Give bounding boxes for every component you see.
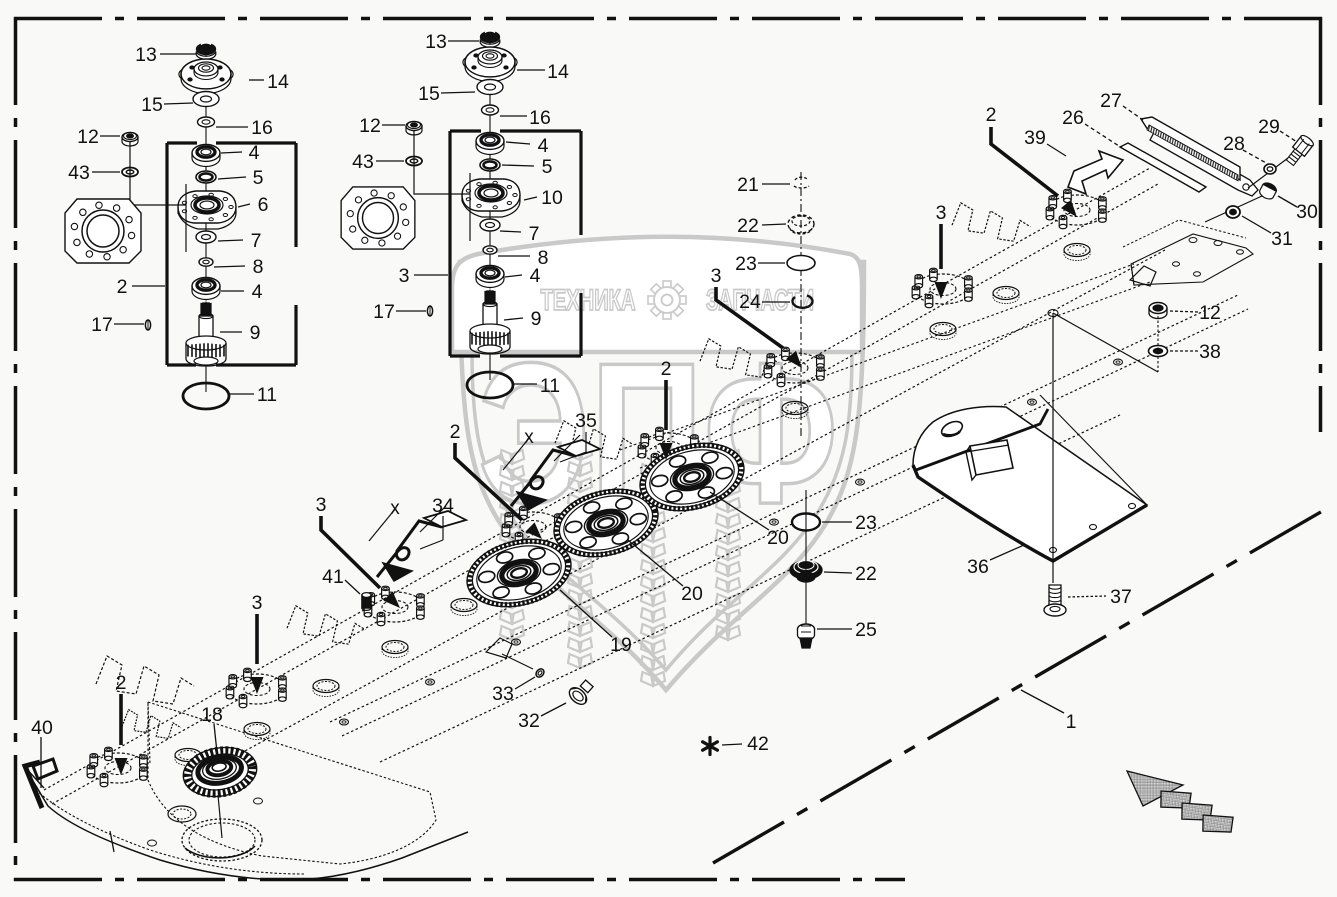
assembly group bracket frame xyxy=(167,143,296,365)
svg-text:3: 3 xyxy=(711,265,722,287)
spindle assembly axis column xyxy=(489,43,491,380)
disc bearing spindle at 118,768 xyxy=(87,747,147,787)
svg-text:31: 31 xyxy=(1271,228,1293,250)
svg-text:15: 15 xyxy=(141,94,163,116)
O-ring 11 xyxy=(183,383,229,409)
label 37 xyxy=(1068,586,1132,608)
label 20 xyxy=(710,492,789,549)
label 12 xyxy=(1170,302,1221,324)
disc bearing spindle at 533,527 xyxy=(502,506,562,546)
arrow 2 to spindle S4 xyxy=(660,380,673,460)
svg-text:34: 34 xyxy=(432,495,454,517)
label 30 xyxy=(1278,196,1318,223)
pin 17 col1 xyxy=(145,320,150,330)
knife blade 27 xyxy=(1141,117,1240,181)
label 4 xyxy=(506,135,549,157)
label 43 xyxy=(352,151,404,173)
svg-text:5: 5 xyxy=(253,167,264,189)
svg-text:29: 29 xyxy=(1258,116,1280,138)
assembly group bracket frame xyxy=(450,131,581,356)
bearing 4 lower xyxy=(476,266,504,288)
label 3 xyxy=(936,202,947,224)
snap ring 24 xyxy=(792,296,812,308)
direction arrow icon bottom right xyxy=(1127,771,1233,835)
label 13 xyxy=(135,44,196,66)
label 20 xyxy=(628,540,703,605)
label 3 xyxy=(252,592,263,614)
label 31 xyxy=(1242,216,1293,250)
svg-text:17: 17 xyxy=(91,314,113,336)
label 42 xyxy=(722,733,769,755)
label 14 xyxy=(517,61,569,83)
svg-text:7: 7 xyxy=(251,230,262,252)
svg-text:17: 17 xyxy=(373,301,395,323)
label 3 xyxy=(399,265,448,287)
ring 22 top xyxy=(788,215,814,234)
O-ring 23 bottom xyxy=(792,514,820,531)
svg-text:23: 23 xyxy=(855,512,877,534)
washer 38 xyxy=(1149,346,1168,357)
svg-text:12: 12 xyxy=(359,115,381,137)
label 2 xyxy=(450,421,461,443)
svg-text:14: 14 xyxy=(267,71,289,93)
svg-text:15: 15 xyxy=(418,83,440,105)
label 34 xyxy=(432,495,454,517)
castellated mounting profiles on bar xyxy=(96,656,194,704)
label 36 xyxy=(967,545,1024,578)
label 27 xyxy=(1100,90,1143,120)
label 12 xyxy=(77,126,120,148)
label 40 xyxy=(31,717,53,788)
svg-text:4: 4 xyxy=(530,265,541,287)
svg-text:37: 37 xyxy=(1110,586,1132,608)
svg-text:ТЕХНИКА: ТЕХНИКА xyxy=(541,284,636,317)
label 23 xyxy=(735,253,785,275)
bearing housing 10 xyxy=(462,179,520,217)
stud line 12-43 to housing xyxy=(414,131,470,194)
arrow 39 leader from label xyxy=(1047,144,1066,156)
O-ring 23 top xyxy=(787,256,815,271)
bearing housing 6 xyxy=(178,191,236,229)
svg-text:22: 22 xyxy=(737,215,759,237)
axis line 12-38 xyxy=(1157,316,1159,372)
bolt 25 xyxy=(798,624,815,648)
disc bearing spindle at 257,689 xyxy=(226,668,286,708)
svg-text:16: 16 xyxy=(251,117,273,139)
washer 28 xyxy=(1264,164,1276,174)
asterisk 42 xyxy=(703,738,718,755)
seal 22 bottom xyxy=(790,561,822,583)
stud axis line xyxy=(1248,152,1296,188)
label 6 xyxy=(238,194,268,216)
screw 29 xyxy=(1284,134,1315,168)
label 25 xyxy=(817,619,877,641)
svg-text:42: 42 xyxy=(747,733,769,755)
label 38 xyxy=(1170,341,1221,363)
pin 17 col2 xyxy=(427,306,432,316)
label 22 xyxy=(737,215,786,237)
label 29 xyxy=(1258,116,1297,142)
label 1 xyxy=(1021,690,1076,733)
label 2 xyxy=(117,276,165,298)
svg-text:13: 13 xyxy=(425,31,447,53)
label 35 xyxy=(575,410,597,432)
arrow 2 bent to spindle S7 xyxy=(991,127,1082,221)
label 7 xyxy=(500,223,539,245)
arrow 2 to spindle S0 xyxy=(115,694,128,775)
skid channel bolt heads xyxy=(340,359,1123,725)
svg-text:43: 43 xyxy=(68,162,90,184)
dimension x for 35 xyxy=(503,427,580,470)
bolt 37 xyxy=(1044,585,1066,616)
svg-text:11: 11 xyxy=(540,375,560,397)
nut 30 xyxy=(1258,178,1280,201)
svg-text:2: 2 xyxy=(986,104,997,126)
svg-text:4: 4 xyxy=(252,281,263,303)
svg-text:40: 40 xyxy=(31,717,53,739)
cutterbar main frame wire outlines xyxy=(44,168,1248,804)
watermark logo xyxy=(452,237,864,690)
arrow 2 bent to spindle S3 xyxy=(455,443,547,544)
svg-text:9: 9 xyxy=(250,322,261,344)
svg-text:9: 9 xyxy=(531,308,542,330)
label 18 xyxy=(201,704,223,762)
label 16 xyxy=(500,107,551,129)
label 2 xyxy=(116,672,127,694)
leader 18 to disc hole xyxy=(218,795,222,838)
cover plate 36 xyxy=(913,407,1147,561)
disc bearing spindle at 1077,210 xyxy=(1046,189,1106,229)
label 5 xyxy=(218,167,264,189)
label 2 xyxy=(661,358,672,380)
svg-text:12: 12 xyxy=(77,126,99,148)
svg-text:27: 27 xyxy=(1100,90,1122,112)
cut line part 1 xyxy=(713,509,1326,863)
svg-text:2: 2 xyxy=(661,358,672,380)
label 5 xyxy=(502,156,553,178)
svg-text:3: 3 xyxy=(252,592,263,614)
spring clip 34 xyxy=(377,511,466,581)
dimension x for 34 xyxy=(369,498,446,541)
svg-text:30: 30 xyxy=(1296,201,1318,223)
nut 13 xyxy=(196,43,216,59)
nut 12 xyxy=(406,122,422,136)
svg-text:24: 24 xyxy=(739,291,761,313)
disc mounting plate xyxy=(148,702,436,864)
disc bearing spindle at 669,448 xyxy=(638,427,698,467)
svg-text:19: 19 xyxy=(610,634,632,656)
label 4 xyxy=(221,142,260,164)
blade clamp wedge right xyxy=(1130,266,1156,286)
label 8 xyxy=(214,256,263,278)
ring 16 xyxy=(198,117,215,127)
gear 20 first xyxy=(547,479,665,567)
label 15 xyxy=(141,94,193,116)
O-ring 11 xyxy=(467,372,513,398)
label 17 xyxy=(91,314,144,336)
svg-text:8: 8 xyxy=(253,256,264,278)
svg-text:43: 43 xyxy=(352,151,374,173)
label 15 xyxy=(418,83,475,105)
line from bar to cover xyxy=(1052,313,1054,583)
leader 34 xyxy=(442,516,444,540)
washer 15 xyxy=(477,80,503,95)
label 17 xyxy=(373,301,426,323)
svg-text:14: 14 xyxy=(547,61,569,83)
washer 15 xyxy=(193,92,219,107)
gear 19 xyxy=(460,529,578,617)
spring clip 35 xyxy=(511,440,600,510)
svg-text:39: 39 xyxy=(1024,127,1046,149)
label 14 xyxy=(249,71,289,93)
bearing 4 upper xyxy=(476,133,504,155)
nut 13 xyxy=(480,31,500,47)
label 39 xyxy=(1024,127,1046,149)
bearing 4 lower xyxy=(192,278,220,300)
svg-text:2: 2 xyxy=(116,672,127,694)
label 22 xyxy=(824,563,877,585)
washer 31 xyxy=(1226,206,1240,218)
label 32 xyxy=(518,703,566,732)
label 10 xyxy=(524,187,563,209)
svg-text:18: 18 xyxy=(201,704,223,726)
spindle assembly axis column xyxy=(205,55,207,392)
blade clamp wedge left xyxy=(486,638,512,658)
left end skid shoe xyxy=(24,766,468,880)
axis line 23b-25 xyxy=(805,490,807,625)
label 19 xyxy=(560,590,632,656)
svg-text:26: 26 xyxy=(1062,107,1084,129)
label 41 xyxy=(322,566,360,594)
arrow 3 bent to spindle S2 xyxy=(321,516,405,613)
label 8 xyxy=(498,247,548,269)
bearing 4 upper xyxy=(192,145,220,167)
svg-text:4: 4 xyxy=(249,142,260,164)
label 43 xyxy=(68,162,120,184)
svg-text:3: 3 xyxy=(399,265,410,287)
arrow 3 to spindle S6 xyxy=(935,224,948,299)
nut 12 right xyxy=(1149,303,1167,319)
svg-text:3: 3 xyxy=(936,202,947,224)
cap 21 xyxy=(794,177,809,188)
label 2 xyxy=(986,104,997,126)
hole on bar for cover mount xyxy=(1048,310,1058,317)
leader 35 xyxy=(585,432,587,452)
washer 7 xyxy=(196,231,216,243)
shaft 9 with splined gear xyxy=(186,301,226,366)
flange bearing holder 14 xyxy=(179,59,233,94)
label 4 xyxy=(505,265,541,287)
shaft 9 with splined gear xyxy=(470,289,510,354)
arrow 3 bent to spindle S5 xyxy=(716,287,807,372)
gear 18 pinion xyxy=(179,742,260,802)
label 21 xyxy=(737,174,790,196)
holder bar 28 assembly xyxy=(1150,127,1258,196)
label 7 xyxy=(218,230,261,252)
flanged bearing ring left (part 2 group) xyxy=(65,199,141,263)
svg-text:25: 25 xyxy=(855,619,877,641)
bearing seat rings on bar xyxy=(175,244,1090,766)
gear 20 second xyxy=(633,433,751,521)
svg-text:2: 2 xyxy=(450,421,461,443)
label 26 xyxy=(1062,107,1122,148)
svg-text:13: 13 xyxy=(135,44,157,66)
arrow 3 to spindle S1 xyxy=(251,614,264,694)
svg-text:10: 10 xyxy=(541,187,563,209)
flanged bearing ring right (part 3 group) xyxy=(341,187,415,249)
label 4 xyxy=(221,281,263,303)
svg-text:35: 35 xyxy=(575,410,597,432)
svg-text:3: 3 xyxy=(316,494,327,516)
svg-text:11: 11 xyxy=(257,384,277,406)
label 11 xyxy=(230,384,277,406)
svg-text:20: 20 xyxy=(767,527,789,549)
label 3 xyxy=(711,265,722,287)
label 23 xyxy=(822,512,877,534)
nut 12 xyxy=(122,133,138,147)
svg-text:33: 33 xyxy=(492,683,514,705)
svg-text:16: 16 xyxy=(529,107,551,129)
svg-text:38: 38 xyxy=(1199,341,1221,363)
label 9 xyxy=(504,308,541,330)
ring 8 xyxy=(483,246,497,254)
svg-text:22: 22 xyxy=(855,563,877,585)
svg-text:28: 28 xyxy=(1223,133,1245,155)
label 13 xyxy=(425,31,479,53)
wear strip 26 xyxy=(1120,143,1206,192)
label 16 xyxy=(216,117,273,139)
washer 43 xyxy=(406,157,422,166)
svg-text:6: 6 xyxy=(258,194,269,216)
svg-text:20: 20 xyxy=(681,583,703,605)
label 24 xyxy=(739,291,790,313)
bar right end plate xyxy=(1123,220,1253,285)
bolt 32 xyxy=(566,677,597,708)
label 28 xyxy=(1223,133,1268,164)
label 9 xyxy=(220,322,260,344)
svg-text:36: 36 xyxy=(967,556,989,578)
svg-text:41: 41 xyxy=(322,566,344,588)
stud line 12-43 to housing xyxy=(130,142,186,205)
corner clip 40 xyxy=(25,759,57,808)
svg-text:7: 7 xyxy=(529,223,540,245)
washer 43 xyxy=(122,168,138,177)
spacer ring 5 xyxy=(480,159,500,171)
ring 8 xyxy=(199,258,213,266)
label 11 xyxy=(514,375,560,397)
svg-text:5: 5 xyxy=(542,156,553,178)
svg-text:32: 32 xyxy=(518,710,540,732)
hanger line to cover corner xyxy=(1040,395,1147,505)
svg-text:23: 23 xyxy=(735,253,757,275)
disc bearing spindle at 943,289 xyxy=(912,268,972,308)
flange bearing holder 14 xyxy=(463,47,517,82)
spacer ring 5 xyxy=(196,171,216,183)
disc bearing spindle at 795,368 xyxy=(764,347,824,387)
ring 16 xyxy=(482,105,499,115)
svg-text:12: 12 xyxy=(1199,302,1221,324)
label 12 xyxy=(359,115,405,137)
direction arrow 39 xyxy=(1068,151,1123,194)
axis dash line through disc hub parts xyxy=(800,172,802,438)
svg-text:21: 21 xyxy=(737,174,759,196)
svg-text:2: 2 xyxy=(117,276,128,298)
washer 7 xyxy=(480,219,500,231)
label 33 xyxy=(492,677,535,705)
pin 41 xyxy=(362,593,371,611)
label 3 xyxy=(316,494,327,516)
svg-text:1: 1 xyxy=(1066,711,1077,733)
pin 33 xyxy=(534,667,545,678)
disc bearing spindle at 395,607 xyxy=(364,586,424,626)
svg-text:4: 4 xyxy=(538,135,549,157)
